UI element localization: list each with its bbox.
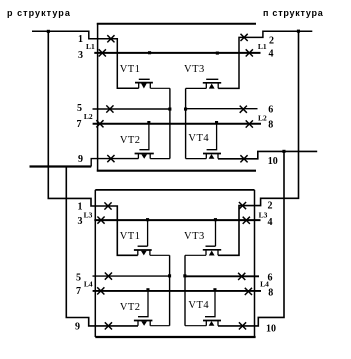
svg-text:VT3: VT3 bbox=[184, 231, 205, 242]
svg-text:р структура: р структура bbox=[7, 8, 71, 18]
svg-text:VT2: VT2 bbox=[120, 302, 141, 313]
svg-text:9: 9 bbox=[75, 322, 80, 333]
svg-text:7: 7 bbox=[77, 119, 82, 130]
svg-text:L1: L1 bbox=[258, 42, 267, 51]
svg-text:L2: L2 bbox=[258, 114, 267, 123]
svg-text:10: 10 bbox=[266, 324, 276, 335]
svg-text:VT1: VT1 bbox=[120, 64, 141, 75]
svg-text:VT4: VT4 bbox=[188, 300, 209, 311]
svg-text:4: 4 bbox=[269, 48, 274, 59]
svg-text:8: 8 bbox=[268, 120, 273, 131]
svg-text:9: 9 bbox=[78, 154, 83, 165]
svg-text:5: 5 bbox=[77, 103, 82, 114]
svg-text:VT1: VT1 bbox=[120, 231, 141, 242]
svg-text:6: 6 bbox=[268, 105, 273, 116]
svg-text:п структура: п структура bbox=[263, 8, 324, 18]
svg-text:L4: L4 bbox=[260, 280, 269, 289]
svg-text:L2: L2 bbox=[84, 112, 93, 121]
svg-text:1: 1 bbox=[78, 34, 83, 45]
svg-text:L1: L1 bbox=[86, 42, 95, 51]
svg-text:VT3: VT3 bbox=[184, 64, 205, 75]
svg-text:10: 10 bbox=[268, 156, 278, 167]
svg-text:8: 8 bbox=[268, 288, 273, 299]
svg-text:L3: L3 bbox=[259, 211, 268, 220]
svg-text:4: 4 bbox=[268, 217, 273, 228]
svg-text:VT2: VT2 bbox=[120, 135, 141, 146]
svg-text:3: 3 bbox=[78, 50, 83, 61]
svg-text:5: 5 bbox=[76, 273, 81, 284]
svg-text:L4: L4 bbox=[84, 280, 93, 289]
svg-text:L3: L3 bbox=[84, 211, 93, 220]
svg-text:3: 3 bbox=[78, 216, 83, 227]
svg-text:2: 2 bbox=[268, 200, 273, 211]
svg-text:2: 2 bbox=[269, 35, 274, 46]
svg-text:VT4: VT4 bbox=[188, 133, 209, 144]
svg-text:7: 7 bbox=[76, 286, 81, 297]
svg-text:1: 1 bbox=[78, 201, 83, 212]
